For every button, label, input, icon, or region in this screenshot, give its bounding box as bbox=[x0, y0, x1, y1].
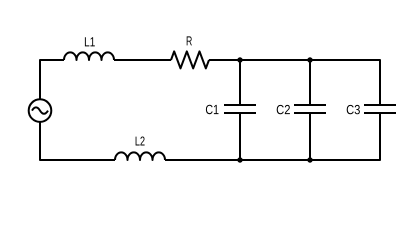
label R bbox=[187, 36, 192, 45]
label C1 bbox=[206, 105, 219, 115]
label C3 bbox=[347, 105, 360, 114]
junction dot top C1 bbox=[237, 57, 242, 62]
wire bottom rail right and bottom-right corner bbox=[165, 113, 380, 160]
inductor L2 bbox=[115, 152, 165, 160]
capacitor C3 plates bbox=[364, 105, 396, 113]
junction dot bottom C1 bbox=[237, 157, 242, 162]
capacitor C2 bbox=[294, 60, 326, 160]
junction dot top C2 bbox=[307, 57, 312, 62]
wire bottom-left corner bbox=[40, 122, 115, 160]
label C2 bbox=[277, 105, 290, 114]
wire top-left corner bbox=[40, 60, 64, 99]
wire between L1 and R bbox=[114, 59, 171, 61]
AC source V1 bbox=[29, 99, 52, 122]
wire top rail right and top-right corner bbox=[209, 60, 380, 105]
capacitor C1 bbox=[224, 60, 256, 160]
inductor L1 bbox=[64, 52, 114, 60]
resistor R bbox=[171, 51, 209, 68]
label L2 bbox=[136, 137, 145, 146]
junction dot bottom C2 bbox=[307, 157, 312, 162]
label L1 bbox=[85, 37, 95, 46]
